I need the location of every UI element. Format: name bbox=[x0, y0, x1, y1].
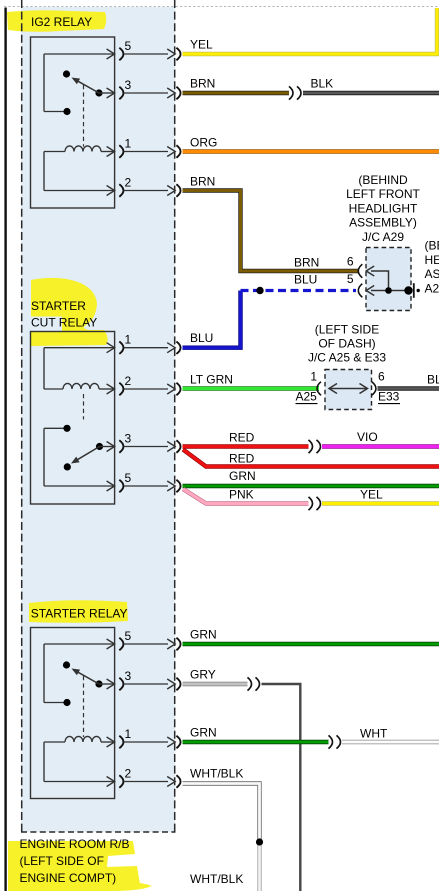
wire to connector, row BLU bbox=[124, 347, 168, 349]
relay switch (contacts) bbox=[44, 427, 64, 429]
svg-text:(LEFT SIDE OF: (LEFT SIDE OF bbox=[20, 854, 104, 868]
inline connector GRN/WHT bbox=[329, 735, 333, 748]
svg-text:IG2 RELAY: IG2 RELAY bbox=[31, 15, 92, 29]
highlight: STARTER CUT RELAY bbox=[31, 278, 108, 346]
svg-text:E33: E33 bbox=[378, 390, 400, 404]
svg-text:(BEHIND: (BEHIND bbox=[425, 239, 439, 253]
relay coil bbox=[44, 741, 65, 743]
relay U2: STARTER CUT RELAY bbox=[31, 332, 132, 505]
pin 1 bbox=[119, 342, 123, 354]
wire VIO bbox=[322, 444, 439, 448]
svg-text:J/C A25 & E33: J/C A25 & E33 bbox=[308, 351, 386, 365]
wire to connector, row GRY bbox=[124, 683, 168, 685]
svg-text:BRN: BRN bbox=[190, 175, 215, 189]
relay link (dashed) bbox=[83, 676, 85, 737]
wire to connector, row GRN2 bbox=[124, 741, 168, 743]
wire BLK bbox=[303, 91, 439, 95]
left edge bus line bbox=[4, 8, 6, 891]
relay switch (contacts) bbox=[44, 643, 115, 645]
E33 pin 6 connector bbox=[372, 382, 376, 396]
wire LT GRN (starter cut pin 2 to J/C A25) bbox=[183, 386, 320, 390]
wire to connector, row RED bbox=[124, 446, 168, 448]
svg-text:ENGINE COMPT): ENGINE COMPT) bbox=[20, 871, 117, 885]
svg-text:HEADLIGHT: HEADLIGHT bbox=[349, 201, 418, 215]
wire RED (starter cut pin 3, upper) bbox=[183, 444, 309, 448]
wire WHT bbox=[342, 740, 439, 744]
svg-text:CUT RELAY: CUT RELAY bbox=[31, 316, 97, 330]
relay U3: STARTER RELAY bbox=[31, 628, 132, 799]
svg-text:2: 2 bbox=[125, 176, 132, 190]
wire GRY (starter relay pin 3) bbox=[183, 682, 248, 686]
inline connector BRN/BLK bbox=[289, 86, 293, 99]
svg-text:YEL: YEL bbox=[190, 38, 213, 52]
relay link (dashed) bbox=[83, 85, 85, 147]
pin 5 bbox=[119, 48, 123, 60]
svg-text:LT GRN: LT GRN bbox=[190, 372, 233, 386]
wire BLK (from E33, clipped) bbox=[378, 386, 439, 390]
svg-text:1: 1 bbox=[125, 333, 132, 347]
inline connector GRY/BLK bbox=[248, 677, 252, 690]
highlight: ENGINE ROOM label bbox=[8, 841, 140, 891]
wire PNK (starter cut pin 5, lower) bbox=[183, 489, 309, 504]
svg-text:ASSEMBLY): ASSEMBLY) bbox=[349, 216, 417, 230]
inline connector PNK/YEL bbox=[309, 497, 313, 510]
A25-E33 pass-through link bbox=[329, 388, 368, 390]
pin 2 bbox=[119, 775, 123, 787]
svg-text:5: 5 bbox=[125, 471, 132, 485]
junction node on WHT/BLK bbox=[256, 838, 263, 845]
wire YEL (IG2 pin 5, turns up at page edge) bbox=[183, 8, 438, 54]
junction box J/C A25 & E33 bbox=[310, 370, 385, 410]
svg-text:BLK: BLK bbox=[311, 77, 334, 91]
junction node inside J/C A29 bbox=[385, 287, 392, 294]
svg-text:ENGINE ROOM R/B: ENGINE ROOM R/B bbox=[20, 837, 130, 851]
highlight: IG2 RELAY bbox=[7, 10, 106, 32]
wire to connector, row BRN bbox=[124, 92, 168, 94]
relay link (dashed) bbox=[83, 394, 85, 420]
svg-text:RED: RED bbox=[229, 431, 255, 445]
svg-text:BLU: BLU bbox=[294, 273, 317, 287]
svg-text:3: 3 bbox=[125, 78, 132, 92]
pin 2 bbox=[119, 184, 123, 196]
svg-text:2: 2 bbox=[125, 767, 132, 781]
wire to connector, row WHT/BLK bbox=[124, 781, 168, 783]
relay outer box bbox=[31, 628, 115, 799]
wire to connector, row ORG bbox=[124, 151, 168, 153]
svg-text:J/C A29: J/C A29 bbox=[362, 230, 404, 244]
svg-text:BRN: BRN bbox=[294, 256, 319, 270]
pin 3 bbox=[119, 440, 123, 452]
pin 2 bbox=[119, 383, 123, 395]
relay block: engine room R/B (shaded area) bbox=[21, 7, 175, 832]
relay outer box bbox=[31, 37, 115, 208]
svg-text:RED: RED bbox=[229, 451, 255, 465]
svg-text:GRY: GRY bbox=[190, 668, 216, 682]
pin 1 bbox=[119, 736, 123, 748]
svg-text:A25: A25 bbox=[296, 390, 318, 404]
wire BLU (starter cut pin 1 to J/C A29 pin 5) bbox=[183, 291, 241, 348]
svg-text:PNK: PNK bbox=[229, 487, 254, 501]
svg-text:GRN: GRN bbox=[190, 726, 217, 740]
svg-text:VIO: VIO bbox=[357, 430, 378, 444]
wire WHT/BLK (starter relay pin 2) bbox=[183, 784, 260, 846]
page divider line (top) bbox=[4, 6, 439, 8]
wire YEL (after connector) bbox=[322, 501, 439, 505]
pin 3 bbox=[119, 87, 123, 99]
J/C A29 right-side connector to A29 bbox=[404, 286, 412, 294]
wire ORG (IG2 pin 1) bbox=[183, 149, 439, 153]
svg-text:BLK: BLK bbox=[427, 373, 439, 387]
wire to connector, row GRN bbox=[124, 643, 168, 645]
svg-text:2: 2 bbox=[125, 374, 132, 388]
wire BRN (IG2 pin 3) bbox=[183, 91, 290, 95]
inline connector RED/VIO bbox=[309, 440, 313, 453]
wire to connector, row GRN bbox=[124, 485, 168, 487]
wire GRN (starter cut pin 5) bbox=[183, 484, 439, 488]
svg-text:1: 1 bbox=[125, 727, 132, 741]
junction node on BLU bbox=[256, 287, 263, 294]
relay U1: IG2 RELAY bbox=[31, 37, 132, 208]
wire BRN (IG2 pin 2 to J/C A29 pin 6) bbox=[183, 191, 359, 272]
svg-text:WHT/BLK: WHT/BLK bbox=[190, 872, 243, 886]
svg-text:(BEHIND: (BEHIND bbox=[358, 173, 408, 187]
svg-text:3: 3 bbox=[125, 432, 132, 446]
wire BLK (down to lower section) bbox=[262, 684, 301, 891]
svg-text:GRN: GRN bbox=[190, 628, 217, 642]
svg-text:1: 1 bbox=[125, 137, 132, 151]
wire WHT/BLK continuation (faint) bbox=[257, 845, 261, 891]
wire to connector, row BRN2 bbox=[124, 190, 168, 192]
pin 5 bbox=[119, 638, 123, 650]
svg-text:6: 6 bbox=[347, 255, 354, 269]
svg-text:BLU: BLU bbox=[190, 331, 213, 345]
relay switch (contacts) bbox=[44, 53, 115, 55]
svg-text:OF DASH): OF DASH) bbox=[318, 337, 375, 351]
J/C A29 internal link bbox=[371, 271, 389, 291]
svg-text:5: 5 bbox=[125, 39, 132, 53]
svg-text:5: 5 bbox=[347, 272, 354, 286]
svg-text:GRN: GRN bbox=[229, 469, 256, 483]
highlight: STARTER RELAY bbox=[29, 600, 128, 623]
relay coil bbox=[44, 347, 115, 349]
svg-text:(LEFT SIDE: (LEFT SIDE bbox=[315, 323, 379, 337]
svg-text:STARTER: STARTER bbox=[31, 299, 86, 313]
svg-text:STARTER RELAY: STARTER RELAY bbox=[31, 607, 128, 621]
svg-text:5: 5 bbox=[125, 629, 132, 643]
wire BLU dashed bbox=[241, 289, 357, 292]
wire to connector, row YEL bbox=[124, 53, 168, 55]
svg-text:WHT/BLK: WHT/BLK bbox=[190, 767, 243, 781]
svg-text:HEADLIGHT: HEADLIGHT bbox=[425, 253, 439, 267]
wire to connector, row LT GRN bbox=[124, 388, 168, 390]
svg-text:ASSEMBLY): ASSEMBLY) bbox=[425, 267, 439, 281]
junction box J/C A29 bbox=[347, 248, 420, 311]
svg-text:3: 3 bbox=[125, 669, 132, 683]
relay coil bbox=[44, 151, 65, 153]
relay block dashed border bbox=[21, 0, 23, 832]
A25 pin 1 connector bbox=[317, 382, 321, 396]
svg-text:A29: A29 bbox=[425, 281, 439, 295]
svg-text:1: 1 bbox=[310, 370, 317, 384]
svg-text:ORG: ORG bbox=[190, 136, 217, 150]
svg-text:WHT: WHT bbox=[360, 727, 388, 741]
pin 1 bbox=[119, 145, 123, 157]
svg-text:BRN: BRN bbox=[190, 77, 215, 91]
J/C A29 pin 5 connector bbox=[358, 284, 362, 298]
pin 3 bbox=[119, 678, 123, 690]
relay outer box bbox=[31, 332, 115, 505]
svg-text:YEL: YEL bbox=[360, 488, 383, 502]
wire GRN (starter relay pin 5) bbox=[183, 642, 439, 646]
wire RED (starter cut pin 3, lower) bbox=[183, 450, 439, 467]
svg-text:LEFT FRONT: LEFT FRONT bbox=[346, 187, 420, 201]
wire GRN (starter relay pin 1) bbox=[183, 740, 329, 744]
pin 5 bbox=[119, 480, 123, 492]
J/C A29 pin 6 connector bbox=[358, 264, 362, 278]
svg-text:6: 6 bbox=[378, 370, 385, 384]
